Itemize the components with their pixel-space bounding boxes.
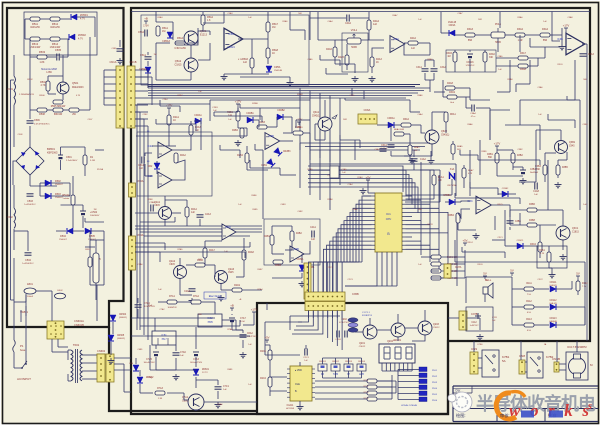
svg-text:100/400V: 100/400V xyxy=(90,215,100,217)
op-amp IC3C xyxy=(476,196,491,214)
resistor R3A2 xyxy=(515,33,525,37)
svg-text:SW201: SW201 xyxy=(319,361,327,363)
svg-text:R5A4: R5A4 xyxy=(177,37,184,40)
svg-text:1uF/P16?: 1uF/P16? xyxy=(470,325,480,327)
svg-text:1.8K: 1.8K xyxy=(40,61,45,64)
wire top mid extras xyxy=(317,12,319,40)
svg-text:R2B8: R2B8 xyxy=(147,199,153,201)
motor M xyxy=(566,352,588,380)
svg-text:C7A5: C7A5 xyxy=(146,358,152,361)
diode CR5A1 xyxy=(145,67,151,73)
resistor R213 xyxy=(367,391,377,395)
wire Q501 connections xyxy=(62,55,64,82)
svg-text:CR2B3: CR2B3 xyxy=(283,151,291,153)
wire CPU right verticals xyxy=(420,162,422,255)
arrow Q6A1 xyxy=(332,115,337,119)
resistor R3A8 xyxy=(518,64,528,68)
wire top row xyxy=(25,18,30,20)
svg-text:C501: C501 xyxy=(66,156,72,159)
wire CN7B xyxy=(448,317,459,319)
svg-text:LHB-VB: LHB-VB xyxy=(549,303,557,305)
resistor R3B4 xyxy=(456,213,460,223)
svg-text:1uF: 1uF xyxy=(139,168,144,170)
resistor R2A3 xyxy=(189,125,193,135)
svg-text:PD01: PD01 xyxy=(432,370,438,372)
wire cluster E xyxy=(271,226,273,235)
resistor R515 xyxy=(88,257,92,267)
svg-text:C3A7: C3A7 xyxy=(457,12,463,15)
svg-text:1W: 1W xyxy=(94,209,97,211)
svg-text:R3B5: R3B5 xyxy=(562,167,568,169)
resistor R2A9 xyxy=(232,288,242,292)
capacitor C505 xyxy=(57,54,59,61)
wire cluster K xyxy=(324,100,326,117)
sub box opamp cluster xyxy=(137,132,212,196)
transistor Q3C1 xyxy=(556,226,570,240)
svg-text:C3A5: C3A5 xyxy=(497,55,503,58)
title approval highlight xyxy=(521,411,534,418)
svg-text:Unit: Unit xyxy=(450,101,454,104)
wire far bottom rails main xyxy=(131,335,250,337)
wire mid long horizontals 2 xyxy=(135,246,250,248)
svg-text:R6A4 56R: R6A4 56R xyxy=(394,128,405,131)
wire long vertical mid xyxy=(262,150,264,219)
wire top rail xyxy=(131,11,590,13)
wire upper-mid connections xyxy=(210,99,310,101)
svg-text:D880: D880 xyxy=(182,401,188,403)
ground xyxy=(173,374,180,380)
svg-text:100uF: 100uF xyxy=(27,296,34,298)
wire top rail drop mid xyxy=(155,12,157,23)
svg-text:Q2A1: Q2A1 xyxy=(154,201,161,204)
svg-text:C1A6: C1A6 xyxy=(352,208,358,211)
ground xyxy=(221,74,228,80)
capacitor C503 xyxy=(27,194,34,196)
svg-text:C1815: C1815 xyxy=(572,232,579,234)
wire cluster G xyxy=(368,12,370,20)
op-amp IC5A xyxy=(224,28,243,50)
svg-text:PD03: PD03 xyxy=(432,382,438,384)
capacitor C3B4 xyxy=(520,170,526,174)
wire regulator area xyxy=(137,298,139,303)
svg-text:5V: 5V xyxy=(483,272,487,276)
svg-text:D504: D504 xyxy=(60,235,66,238)
op-amp IC3A xyxy=(390,36,405,53)
diode CR111 xyxy=(550,286,556,292)
svg-text:SW203: SW203 xyxy=(345,361,353,363)
ground xyxy=(189,298,196,304)
svg-text:4.7K: 4.7K xyxy=(76,95,81,97)
transformer T601 xyxy=(71,349,82,383)
capacitor C2C1 xyxy=(305,349,307,356)
svg-text:56R: 56R xyxy=(343,119,347,121)
svg-text:C2B4: C2B4 xyxy=(162,99,168,101)
pot POL1 xyxy=(491,28,505,38)
svg-text:4.7K: 4.7K xyxy=(540,253,545,255)
wire long verticals left xyxy=(136,105,138,330)
svg-text:+B: +B xyxy=(230,304,234,308)
resistor R7A2 xyxy=(191,300,201,304)
svg-text:R3A4: R3A4 xyxy=(542,28,549,31)
resistor R4A4 xyxy=(367,20,371,30)
resistor R113 xyxy=(524,323,534,327)
svg-text:4.7V: 4.7V xyxy=(80,18,85,21)
wire left-mid extra xyxy=(135,242,165,244)
svg-text:IC2B: IC2B xyxy=(268,135,274,138)
ground xyxy=(428,158,435,164)
wire misc fill 6 xyxy=(140,221,175,223)
svg-text:R3A7: R3A7 xyxy=(520,52,526,55)
IC62 7805 regulator xyxy=(198,314,222,327)
capacitor C7C1 xyxy=(215,387,222,389)
svg-text:2.2uF/400V: 2.2uF/400V xyxy=(66,160,78,162)
capacitor C5B1 xyxy=(117,49,124,51)
svg-text:CR113: CR113 xyxy=(550,318,558,320)
svg-text:绘图:: 绘图: xyxy=(456,412,466,419)
display section border xyxy=(257,303,448,414)
resistor R5A8 xyxy=(266,48,270,58)
wire box bottom rail xyxy=(265,354,300,356)
resistor R5A7 xyxy=(266,22,270,32)
diode CR604b xyxy=(133,365,139,371)
wire to IC3B xyxy=(530,46,560,48)
capacitor C3A1 xyxy=(422,69,429,71)
capacitor C6A2 xyxy=(240,335,247,337)
diode CR1A1 xyxy=(450,173,455,179)
transistor Q5A2 xyxy=(184,58,198,72)
ground xyxy=(549,272,556,278)
resistor R509 xyxy=(53,108,63,112)
capacitor C5A1 xyxy=(145,57,152,59)
diode CR2B3 xyxy=(274,148,282,156)
svg-text:C111: C111 xyxy=(492,317,498,319)
diode D505 xyxy=(85,228,91,234)
wire top right extras xyxy=(499,12,501,28)
resistor R505 xyxy=(53,100,63,104)
svg-text:C7B1: C7B1 xyxy=(147,377,153,379)
svg-text:Q201: Q201 xyxy=(359,342,366,345)
svg-text:Q7A1: Q7A1 xyxy=(182,396,189,399)
wire crystal xyxy=(451,179,453,195)
svg-text:C6A4: C6A4 xyxy=(417,113,423,116)
svg-text:56R: 56R xyxy=(478,19,482,21)
svg-text:R111: R111 xyxy=(526,282,532,285)
capacitor C2A4 xyxy=(189,289,196,291)
svg-text:78L7: 78L7 xyxy=(161,338,167,341)
resistor R2B3 xyxy=(257,125,267,129)
svg-text:Q3C1: Q3C1 xyxy=(572,227,579,230)
svg-text:1N414B: 1N414B xyxy=(274,70,282,72)
svg-text:C3C2: C3C2 xyxy=(537,279,543,281)
svg-text:R6A6: R6A6 xyxy=(467,123,473,126)
svg-text:VOL1: VOL1 xyxy=(351,29,358,32)
svg-text:D502: D502 xyxy=(55,180,61,183)
svg-text:IC2A: IC2A xyxy=(147,145,153,148)
svg-text:IC2D: IC2D xyxy=(225,226,231,229)
transistor Q203 xyxy=(418,321,432,335)
svg-text:47uF: 47uF xyxy=(240,321,246,323)
svg-text:R4A5: R4A5 xyxy=(338,56,344,59)
wire cluster I xyxy=(496,149,498,153)
resistor R3A5 xyxy=(453,52,457,62)
switch SW202 xyxy=(331,364,340,371)
svg-text:C2C3: C2C3 xyxy=(347,279,353,281)
capacitor C504 xyxy=(25,253,32,255)
switch SW204 xyxy=(357,364,366,371)
transistor Q6A1 xyxy=(318,117,332,131)
svg-text:R503: R503 xyxy=(39,50,46,54)
connector CN7A xyxy=(444,264,451,278)
wire CN601 down xyxy=(51,339,53,352)
inductor L501 xyxy=(14,76,16,105)
svg-text:KBP206G: KBP206G xyxy=(47,152,58,155)
wire row D1 xyxy=(135,212,158,214)
svg-text:R6B1: R6B1 xyxy=(227,369,233,371)
svg-text:1K: 1K xyxy=(376,62,379,64)
svg-text:4.7K: 4.7K xyxy=(41,84,46,87)
resistor R161 xyxy=(547,252,551,262)
svg-text:R3A8: R3A8 xyxy=(520,68,526,71)
wire top rail drop right xyxy=(551,12,553,31)
resistor R2B1 xyxy=(236,111,240,121)
capacitor C204 xyxy=(345,331,347,338)
svg-text:R511A: R511A xyxy=(97,168,104,171)
wire CN602 to main xyxy=(114,357,131,359)
svg-text:R3C4: R3C4 xyxy=(467,242,473,244)
transistor Q3B1 xyxy=(555,141,568,154)
diode CR4B1 xyxy=(299,265,305,271)
ground xyxy=(477,334,484,340)
resistor R2C1 xyxy=(268,350,272,360)
wire caps C3A xyxy=(424,60,426,67)
svg-text:C5C1: C5C1 xyxy=(327,267,333,269)
svg-text:R512A: R512A xyxy=(62,194,70,197)
svg-text:7805: 7805 xyxy=(207,321,213,324)
wire bell xyxy=(484,294,486,302)
relay K7B2 xyxy=(527,352,543,378)
wire lower right rails xyxy=(455,261,585,263)
wire L502 xyxy=(13,185,15,208)
svg-text:R3A3: R3A3 xyxy=(467,28,474,31)
connector CN601 xyxy=(47,321,64,339)
capacitor C3A2 xyxy=(431,69,438,71)
svg-text:R11B/P13: R11B/P13 xyxy=(362,315,373,317)
svg-text:CN5B: CN5B xyxy=(352,293,359,296)
capacitor C3A3 xyxy=(580,54,587,56)
wire right mid extra xyxy=(494,216,496,230)
svg-text:R7A2: R7A2 xyxy=(193,295,199,298)
svg-text:R4A6: R4A6 xyxy=(326,48,332,51)
capacitor C7A5 xyxy=(153,352,159,356)
svg-text:R3A5: R3A5 xyxy=(446,52,452,55)
wire mid band horizontals xyxy=(310,163,456,165)
svg-text:IC2B: IC2B xyxy=(147,175,153,178)
wire cluster I3 xyxy=(537,224,556,226)
IC CPU U1 xyxy=(372,193,406,252)
resistor R162 xyxy=(576,281,580,291)
capacitor C6A1 xyxy=(388,145,395,147)
svg-text:C1815: C1815 xyxy=(174,64,182,67)
svg-text:CR61: CR61 xyxy=(261,165,268,167)
svg-text:fuse: fuse xyxy=(20,348,26,352)
svg-text:R505 680/1W: R505 680/1W xyxy=(51,105,66,108)
resistor R513 xyxy=(30,37,40,41)
diode D504 xyxy=(67,228,73,234)
svg-text:R6A3: R6A3 xyxy=(414,146,420,149)
svg-text:CN7A: CN7A xyxy=(455,266,462,269)
svg-text:C2C1: C2C1 xyxy=(303,357,309,359)
svg-text:R3C6: R3C6 xyxy=(477,264,483,266)
svg-text:AC/INPUT: AC/INPUT xyxy=(17,377,31,381)
ground xyxy=(215,402,222,408)
svg-text:680/1W: 680/1W xyxy=(54,113,63,116)
wire R1C rows xyxy=(421,256,431,258)
svg-text:R2A4: R2A4 xyxy=(191,208,197,211)
ground xyxy=(108,358,115,364)
svg-text:1uF: 1uF xyxy=(373,23,378,26)
seven segment display DS1 xyxy=(379,344,415,363)
resistor R5A1 xyxy=(156,26,160,36)
pot VOL1 xyxy=(347,34,361,44)
wire right column rails xyxy=(574,60,576,100)
svg-text:5.1M: 5.1M xyxy=(90,160,95,162)
wire power box left rail xyxy=(10,80,12,300)
op-amp IC2D xyxy=(222,224,236,240)
wires power to CN1A xyxy=(104,69,116,71)
ground xyxy=(369,76,376,82)
diode CR2B4 xyxy=(267,159,275,167)
wire CPU bottom drops xyxy=(345,252,377,286)
svg-text:C3A2: C3A2 xyxy=(440,66,446,69)
diode CR113 xyxy=(550,322,556,328)
svg-text:C2A4: C2A4 xyxy=(184,290,190,293)
svg-text:170V: 170V xyxy=(143,25,149,28)
wire 7seg pins xyxy=(381,363,383,371)
node +17V xyxy=(495,146,499,149)
fuse F1 xyxy=(13,340,16,352)
svg-text:R2B6: R2B6 xyxy=(252,103,258,105)
wire bus mid horizontals xyxy=(300,142,430,144)
wire display res to led xyxy=(377,380,396,382)
op-amp IC2A xyxy=(158,142,172,158)
resistor R4B1 xyxy=(270,235,274,245)
svg-text:C7C1: C7C1 xyxy=(223,386,230,388)
svg-text:R3A9: R3A9 xyxy=(449,91,455,94)
box H sub xyxy=(446,50,496,72)
svg-text:CN8: CN8 xyxy=(519,354,525,358)
svg-text:BELL: BELL xyxy=(485,278,492,282)
wire IC top xyxy=(299,362,301,366)
diode ZD601 xyxy=(193,369,199,375)
wire misc fill 4 xyxy=(354,140,356,160)
svg-text:+17V: +17V xyxy=(251,308,258,312)
svg-text:R4A2: R4A2 xyxy=(410,37,416,40)
wire LED column left xyxy=(398,369,419,371)
wire second row xyxy=(25,38,30,40)
svg-text:1uF: 1uF xyxy=(180,355,184,357)
resistor R508 xyxy=(37,108,47,112)
resistor R111 xyxy=(524,287,534,291)
connector CN8 xyxy=(519,360,525,374)
ground xyxy=(240,352,247,358)
resistor R3B6 xyxy=(527,208,537,212)
svg-text:CN5A: CN5A xyxy=(297,258,304,261)
resistor R6A1 xyxy=(444,112,448,122)
wire cluster C xyxy=(168,111,170,115)
svg-text:R2B2: R2B2 xyxy=(232,130,238,132)
resistor R2C2 xyxy=(268,377,272,387)
diode CR5B xyxy=(449,199,455,205)
svg-text:C505: C505 xyxy=(55,48,62,52)
wire power extra stubs xyxy=(95,149,104,151)
wire right-bottom extras xyxy=(455,197,520,199)
sub box VOL1 xyxy=(342,33,368,72)
svg-text:CR2: CR2 xyxy=(148,166,153,168)
resistor R2A8 xyxy=(242,250,246,260)
node +17V xyxy=(564,28,568,31)
svg-text:1uF/50VDC: 1uF/50VDC xyxy=(22,263,34,265)
diode CR604 xyxy=(110,315,116,321)
diode CR6A1 xyxy=(388,122,394,128)
resistor R4A8 xyxy=(445,86,455,90)
svg-text:R7A1: R7A1 xyxy=(169,295,175,298)
transistor Q5A1 xyxy=(184,31,198,45)
svg-text:ZD502: ZD502 xyxy=(78,33,86,37)
resistor R2A1 xyxy=(167,115,171,125)
resistor R3B3 xyxy=(543,165,547,175)
connector CN602 right xyxy=(106,354,114,382)
svg-text:R2A5: R2A5 xyxy=(177,248,183,251)
ground xyxy=(473,233,480,239)
svg-text:R3B6: R3B6 xyxy=(529,204,535,206)
svg-text:Q2A3: Q2A3 xyxy=(228,268,235,271)
ground xyxy=(287,80,294,86)
svg-text:Q3B1: Q3B1 xyxy=(569,141,576,144)
svg-text:+17V: +17V xyxy=(296,118,303,122)
svg-text:CN602: CN602 xyxy=(97,349,106,353)
svg-text:47uF: 47uF xyxy=(148,305,153,307)
wire LED rows xyxy=(512,288,524,290)
svg-text:1uF/50VDC: 1uF/50VDC xyxy=(24,204,36,206)
svg-text:C6A3: C6A3 xyxy=(374,148,380,151)
svg-text:R2A8: R2A8 xyxy=(248,251,254,254)
wire main misc stubs xyxy=(160,105,180,107)
svg-text:CR5A3: CR5A3 xyxy=(162,40,170,43)
ground xyxy=(352,76,359,82)
resistor R2A4 xyxy=(185,207,189,217)
switch SW201 xyxy=(318,364,327,371)
resistor R2A7 xyxy=(203,248,207,258)
wire top-left main stubs xyxy=(119,40,121,47)
node +5V xyxy=(576,276,580,279)
svg-text:C945: C945 xyxy=(154,205,160,207)
switch SW601 xyxy=(21,361,27,369)
transistor Q2A2 xyxy=(174,266,187,279)
svg-text:E1213: E1213 xyxy=(200,34,208,37)
connector CN4A xyxy=(129,236,136,270)
node +5V xyxy=(463,243,467,246)
svg-text:R2B3: R2B3 xyxy=(259,122,265,124)
svg-text:CR604: CR604 xyxy=(119,314,127,316)
main section border xyxy=(131,8,590,414)
capacitor C501 xyxy=(58,155,63,159)
resistor R4A2 xyxy=(408,41,418,45)
capacitor C502 xyxy=(80,211,86,215)
wire misc fill 7 xyxy=(504,210,506,240)
svg-text:IC3B: IC3B xyxy=(557,38,563,41)
svg-text:C5B1: C5B1 xyxy=(111,48,117,50)
wire motor to CN6B xyxy=(559,363,566,365)
